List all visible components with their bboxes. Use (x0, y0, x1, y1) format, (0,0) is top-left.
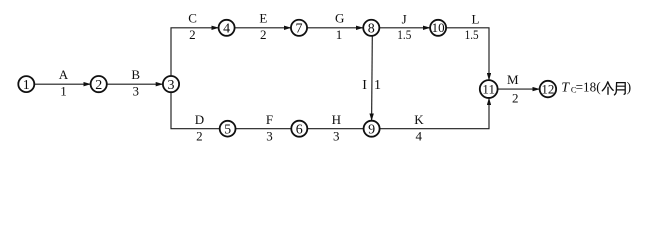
wire activity H: 6 to 9 (307, 128, 363, 130)
value 2 (duration of E) (260, 27, 267, 42)
node 12 (540, 81, 557, 98)
node 4 (219, 20, 235, 37)
svg-text:H: H (332, 112, 341, 127)
svg-text:): ) (627, 79, 632, 94)
node 2 (91, 76, 107, 93)
svg-text:=18(: =18( (576, 79, 601, 94)
value 1.5 (duration of J) (397, 27, 411, 42)
wire activity E: 4 to 7 (235, 27, 291, 29)
svg-text:4: 4 (415, 129, 422, 144)
svg-text:1: 1 (23, 78, 30, 93)
value 4 (duration of K) (415, 129, 422, 144)
hanzi YUE (月) (614, 83, 625, 95)
svg-text:3: 3 (132, 83, 139, 98)
svg-text:2: 2 (95, 78, 102, 93)
svg-text:T: T (561, 80, 570, 95)
node 9 (364, 121, 380, 138)
label M (507, 72, 519, 87)
wire activity J: 8 to 10 (379, 27, 430, 29)
label F (266, 112, 273, 127)
label A (59, 67, 69, 82)
svg-text:4: 4 (223, 21, 230, 36)
annotation subscript C (571, 85, 577, 95)
wire activity D: 3 down then right to 5 (171, 92, 220, 129)
label E (259, 11, 267, 26)
value 2 (duration of D) (196, 128, 203, 143)
wire activity M: 11 to 12 (498, 88, 540, 90)
value 2 (duration of C) (189, 27, 196, 42)
label I (362, 78, 367, 93)
svg-text:A: A (59, 67, 69, 82)
value 1 (duration of A) (60, 83, 67, 98)
wire activity C: 3 up then right to 4 (171, 28, 219, 76)
label D (195, 112, 204, 127)
wire activity K: 9 right then up to 11 (380, 98, 489, 129)
svg-text:B: B (131, 67, 140, 82)
value 3 (duration of B) (132, 83, 139, 98)
svg-text:10: 10 (432, 20, 445, 35)
svg-text:J: J (402, 11, 407, 26)
annotation =18( (576, 79, 601, 94)
svg-text:8: 8 (368, 21, 375, 36)
svg-text:K: K (414, 112, 424, 127)
value 3 (duration of F) (266, 128, 273, 143)
node 1 (18, 76, 34, 93)
svg-text:2: 2 (512, 90, 519, 105)
label L (472, 12, 480, 27)
svg-text:E: E (259, 11, 267, 26)
node 3 (163, 76, 179, 93)
svg-text:1: 1 (374, 78, 381, 93)
label B (131, 67, 140, 82)
svg-text:F: F (266, 112, 273, 127)
hanzi GE (个) (602, 82, 613, 94)
svg-text:L: L (472, 12, 480, 27)
svg-text:1: 1 (60, 83, 67, 98)
annotation closing paren (627, 79, 632, 94)
svg-text:2: 2 (196, 128, 203, 143)
svg-text:7: 7 (296, 21, 303, 36)
wire activity F: 5 to 6 (236, 128, 292, 130)
svg-text:9: 9 (368, 122, 375, 137)
label H (332, 112, 341, 127)
svg-text:3: 3 (333, 128, 340, 143)
label C (188, 11, 197, 26)
value 1 (duration of G) (336, 27, 343, 42)
node 5 (220, 121, 236, 138)
wire activity B: 2 to 3 (107, 83, 163, 85)
label G (335, 11, 344, 26)
svg-text:2: 2 (189, 27, 196, 42)
svg-text:C: C (188, 11, 197, 26)
node 6 (291, 121, 307, 138)
svg-text:12: 12 (541, 81, 554, 96)
wire activity G: 7 to 8 (307, 27, 363, 29)
value 1 (duration of I) (374, 78, 381, 93)
label J (402, 11, 407, 26)
node 7 (291, 20, 307, 37)
node 10 (430, 20, 446, 36)
svg-text:1.5: 1.5 (397, 27, 411, 42)
svg-text:11: 11 (482, 81, 495, 96)
annotation TC total duration: italic T (561, 80, 570, 95)
svg-text:2: 2 (260, 27, 267, 42)
wire activity I: 8 down to 9 (371, 36, 374, 121)
svg-text:G: G (335, 11, 344, 26)
wire activity A: 1 to 2 (34, 83, 90, 85)
svg-text:M: M (507, 72, 519, 87)
svg-text:5: 5 (224, 122, 231, 137)
value 1.5 (duration of L) (465, 27, 479, 42)
svg-text:I: I (362, 78, 367, 93)
svg-text:1.5: 1.5 (465, 27, 479, 42)
svg-text:6: 6 (296, 122, 303, 137)
svg-text:3: 3 (266, 128, 273, 143)
node 8 (363, 20, 379, 37)
label K (414, 112, 424, 127)
svg-text:D: D (195, 112, 204, 127)
wire activity L: 10 right then down to 11 (446, 28, 489, 80)
node 11 (480, 80, 498, 98)
value 3 (duration of H) (333, 128, 340, 143)
svg-text:1: 1 (336, 27, 343, 42)
value 2 (duration of M) (512, 90, 519, 105)
svg-text:3: 3 (168, 78, 175, 93)
